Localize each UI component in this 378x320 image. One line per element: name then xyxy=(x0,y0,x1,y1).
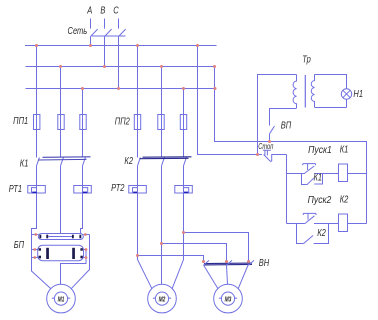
connector БП lower right stub b xyxy=(84,257,87,259)
connector БП lower left stub b xyxy=(32,257,38,259)
fuse ПП1 pole1 xyxy=(34,115,40,130)
svg-text:К1: К1 xyxy=(314,171,323,182)
connector БП lower left stub a xyxy=(32,249,38,251)
connector БП lower pill pin d xyxy=(80,256,82,259)
connector БП upper pill pin2 xyxy=(46,235,48,239)
junction dots БП xyxy=(34,233,37,236)
wire tap M3 phase3 xyxy=(184,233,249,262)
svg-text:К2: К2 xyxy=(317,227,326,238)
connector БП lower pill bar1 xyxy=(46,248,49,259)
switch Сеть tie bar xyxy=(92,35,126,37)
svg-text:ВН: ВН xyxy=(259,257,270,268)
wire column1 group2 lower xyxy=(138,166,152,289)
wire rung1 mid xyxy=(314,173,339,175)
thermal relay РТ1 heater pole1 xyxy=(28,186,46,194)
wire rung1 left xyxy=(287,173,306,175)
junction dots ВН switch xyxy=(202,260,205,263)
button Пуск2 blade xyxy=(306,216,315,223)
svg-text:ВП: ВП xyxy=(281,119,292,130)
wire phase C stub xyxy=(118,19,120,29)
junction dot ВП xyxy=(268,140,271,143)
junction dots bus3 xyxy=(81,87,84,90)
wire rung2 right xyxy=(347,223,367,225)
svg-text:РТ2: РТ2 xyxy=(111,182,124,193)
svg-text:A: A xyxy=(86,5,92,16)
connector БП lower pill pin a xyxy=(39,248,41,251)
wire column3 group1 mid xyxy=(81,166,83,234)
wire A down to bus1 xyxy=(90,36,92,46)
coil K2 xyxy=(339,214,348,232)
wire column2 group2 lower xyxy=(161,166,163,284)
fuse ПП2 pole2 xyxy=(158,115,164,130)
coil K1 xyxy=(339,164,348,182)
contactor K2 blade pole1 xyxy=(138,157,141,165)
fuse ПП1 pole2 xyxy=(58,115,64,130)
button Стоп blade xyxy=(264,155,272,162)
lamp Л1 xyxy=(341,89,351,99)
switch Сеть blade B xyxy=(105,29,112,36)
connector БП lower pill xyxy=(38,245,84,261)
connector БП upper right stub xyxy=(83,234,89,236)
connector БП lower pill pin b xyxy=(39,256,41,259)
motor M3 xyxy=(214,284,243,313)
contactor K2 blade pole2 xyxy=(162,157,165,165)
connector БП upper pill pin1 xyxy=(39,235,41,239)
wire feed B from bus2 xyxy=(215,67,367,224)
contactor K1 blade pole3 xyxy=(83,157,86,165)
wire phase B stub xyxy=(104,19,106,29)
button Стоп actuator xyxy=(263,150,271,155)
wire column1 group2 upper xyxy=(137,46,139,158)
wire tap M3 phase1 xyxy=(138,256,204,262)
wire B down to bus2 xyxy=(104,36,106,67)
wire feed A from bus1 xyxy=(198,46,263,155)
fuse ПП2 pole3 xyxy=(180,115,186,130)
wire secondary loop top xyxy=(315,75,347,89)
transformer Тр secondary winding xyxy=(311,75,314,108)
wire transformer primary bottom xyxy=(270,109,297,126)
junction dot Стоп line xyxy=(256,153,259,156)
connector БП upper pill pin3 xyxy=(72,235,74,239)
wire column3 group1 upper xyxy=(82,89,84,158)
wire rung1 right xyxy=(347,173,367,175)
fuse ПП2 pole1 xyxy=(134,115,140,130)
contactor K2 tie bar xyxy=(140,157,192,159)
switch ВН tie bar xyxy=(204,263,252,265)
thermal relay РТ2 heater pole3 xyxy=(175,186,193,194)
wire bus1 xyxy=(25,45,217,47)
connector БП upper pill link xyxy=(48,236,72,238)
connector БП upper pill xyxy=(38,234,83,240)
switch Сеть blade A xyxy=(91,29,98,36)
wire column2 group2 upper xyxy=(161,67,163,158)
contact K1 aux branch xyxy=(302,174,323,185)
svg-text:К2: К2 xyxy=(124,155,133,166)
wire БП lower right to M1 middle xyxy=(61,250,87,285)
wire secondary loop bottom xyxy=(315,99,347,107)
contact K2 aux branch xyxy=(297,224,329,244)
junction dots bus2 xyxy=(59,65,62,68)
wire tap M3 phase2 xyxy=(162,244,227,262)
connector БП lower pill bar2 xyxy=(72,248,75,259)
funnel M3 middle xyxy=(227,265,228,285)
motor M1 xyxy=(47,284,76,313)
wire column1 group1 upper xyxy=(36,46,38,158)
svg-text:B: B xyxy=(100,5,105,16)
junction dots bus1 xyxy=(35,44,38,47)
contactor K2 blade pole3 xyxy=(184,157,187,165)
thermal relay РТ2 heater pole1 xyxy=(129,186,147,194)
wire column2 group1 mid xyxy=(60,166,62,234)
funnel M3 right xyxy=(238,264,248,289)
svg-text:Тр: Тр xyxy=(302,53,311,64)
wire ВП to feed B xyxy=(269,134,271,142)
wire БП upper right to M1 xyxy=(71,235,89,289)
svg-text:Стоп: Стоп xyxy=(258,141,273,152)
wire column1 group1 mid xyxy=(32,166,51,289)
connector БП upper pill pin4 xyxy=(79,235,81,239)
switch ВП blade xyxy=(270,126,275,134)
wire column2 group1 upper xyxy=(60,67,62,158)
contactor K1 blade pole1 xyxy=(37,157,40,165)
motor M2 xyxy=(148,284,177,313)
connector БП lower right stub a xyxy=(84,249,87,251)
svg-text:ПП1: ПП1 xyxy=(13,115,28,126)
wire phase A stub xyxy=(90,19,92,29)
svg-text:К1: К1 xyxy=(340,143,349,154)
funnel M3 left xyxy=(204,265,219,289)
wire bus3 xyxy=(26,88,216,90)
wire transformer primary top xyxy=(258,75,297,155)
transformer Тр core xyxy=(304,75,306,108)
svg-text:C: C xyxy=(113,5,119,16)
transformer Тр primary winding xyxy=(293,75,296,109)
junction dots M3 taps xyxy=(182,231,185,234)
wire column3 group2 lower xyxy=(172,166,183,289)
svg-text:Пуск1: Пуск1 xyxy=(308,144,332,155)
svg-text:БП: БП xyxy=(14,239,25,250)
connector БП lower pill pin c xyxy=(80,248,82,251)
svg-text:Н1: Н1 xyxy=(353,88,363,99)
wire control left edge xyxy=(286,155,288,224)
button Пуск2 actuator xyxy=(303,213,316,219)
wire rung2 mid xyxy=(314,223,339,225)
svg-text:Сеть: Сеть xyxy=(68,25,88,36)
button Стоп right terminal xyxy=(272,155,287,162)
svg-text:РТ1: РТ1 xyxy=(9,183,22,194)
fuse ПП1 pole3 xyxy=(80,115,86,130)
thermal relay РТ1 heater pole3 xyxy=(74,186,92,194)
wire bus2 xyxy=(26,66,216,68)
connector БП upper left stub xyxy=(32,234,39,236)
svg-text:М2: М2 xyxy=(159,296,166,304)
svg-text:М1: М1 xyxy=(58,296,65,304)
svg-text:Пуск2: Пуск2 xyxy=(308,194,332,205)
svg-text:М3: М3 xyxy=(225,296,232,304)
button Пуск1 actuator xyxy=(303,164,316,170)
wire rung2 left xyxy=(287,223,306,225)
contactor K1 blade pole2 xyxy=(61,157,64,165)
svg-text:ПП2: ПП2 xyxy=(115,115,130,126)
contactor K1 tie bar xyxy=(38,157,91,160)
svg-text:К1: К1 xyxy=(20,157,29,168)
wire C down to bus3 xyxy=(118,36,120,89)
wire column3 group2 upper xyxy=(183,89,185,158)
button Пуск1 blade xyxy=(305,166,314,173)
svg-text:К2: К2 xyxy=(340,193,349,204)
switch Сеть blade C xyxy=(119,29,126,36)
